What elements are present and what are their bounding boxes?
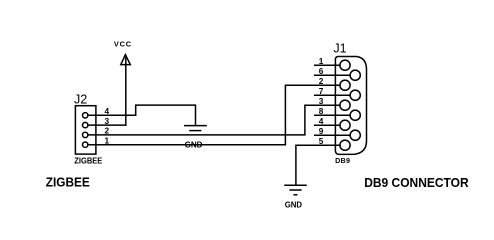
pin number 7 (J1)	[319, 86, 324, 96]
svg-text:2: 2	[319, 76, 324, 86]
label ZIGBEE (symbol value)	[74, 156, 102, 165]
wire stub J1 pin 4	[315, 124, 340, 126]
wire J2 pin 2 to J1 pin 3	[88, 105, 340, 135]
pin circle J1-3	[340, 100, 350, 110]
pin number 1 (J1)	[319, 56, 324, 66]
wire J2 pin 3 to VCC	[88, 124, 126, 126]
pin number 9 (J1)	[319, 126, 324, 136]
power symbol VCC label	[114, 39, 132, 48]
connector J1 DB9 shell	[335, 57, 366, 155]
ground symbol (bottom) bar 3	[294, 194, 297, 196]
pin circle J2-2	[83, 132, 88, 137]
label DB9 (symbol value)	[335, 156, 350, 165]
svg-text:GND: GND	[285, 201, 303, 210]
pin number 1 (J2)	[104, 136, 109, 146]
ground symbol (mid) bar 2	[190, 130, 201, 132]
svg-text:8: 8	[319, 106, 324, 116]
ground symbol (bottom) label GND	[285, 201, 303, 210]
pin number 4 (J1)	[319, 116, 324, 126]
svg-text:3: 3	[319, 96, 324, 106]
svg-text:9: 9	[319, 126, 324, 136]
connector J2 designator	[74, 92, 87, 106]
svg-text:1: 1	[319, 56, 324, 66]
pin circle J1-5	[340, 140, 350, 150]
ground symbol (mid) bar 1	[185, 125, 206, 127]
wire J2 pin 4 to ground	[88, 105, 196, 125]
pin number 3 (J1)	[319, 96, 324, 106]
svg-text:ZIGBEE: ZIGBEE	[74, 156, 102, 165]
pin number 5 (J1)	[319, 136, 324, 146]
wire stub J1 pin 6	[315, 74, 350, 76]
ground symbol (bottom) bar 2	[290, 189, 301, 191]
wire stub J1 pin 7	[315, 94, 350, 96]
svg-text:6: 6	[319, 66, 324, 76]
wire stub J1 pin 2	[315, 84, 336, 86]
wire stub J1 pin 8	[315, 114, 350, 116]
pin circle J2-3	[83, 122, 88, 127]
svg-text:ZIGBEE: ZIGBEE	[46, 174, 90, 189]
svg-text:4: 4	[319, 116, 324, 126]
connector J1 designator	[333, 41, 346, 55]
net label GND on wire	[185, 140, 203, 149]
pin number 4 (J2)	[104, 106, 109, 116]
wire VCC vertical to J2 pin 3	[125, 58, 127, 126]
pin circle J1-1	[340, 60, 350, 70]
connector J2 body	[75, 106, 96, 154]
pin circle J1-9	[350, 130, 360, 140]
svg-text:DB9: DB9	[335, 156, 350, 165]
pin number 2 (J2)	[104, 126, 109, 136]
pin circle J2-4	[83, 113, 88, 118]
pin circle J1-4	[340, 120, 350, 130]
svg-text:5: 5	[319, 136, 324, 146]
pin number 8 (J1)	[319, 106, 324, 116]
svg-text:J2: J2	[74, 92, 87, 106]
pin circle J1-2	[340, 80, 350, 90]
title ZIGBEE	[46, 174, 90, 189]
wire J2 pin 1 to J1 pin 2 (net GND)	[88, 85, 340, 145]
wire stub J1 pin 9	[315, 134, 350, 136]
svg-text:7: 7	[319, 86, 324, 96]
pin circle J2-1	[83, 142, 88, 147]
pin circle J1-6	[350, 70, 360, 80]
wire stub J1 pin 3	[315, 104, 336, 106]
wire stub J1 pin 5	[315, 144, 336, 146]
title DB9 CONNECTOR	[364, 175, 469, 190]
wire stub J1 pin 1	[315, 64, 340, 66]
svg-text:VCC: VCC	[114, 39, 132, 48]
pin number 2 (J1)	[319, 76, 324, 86]
pin circle J1-7	[350, 90, 360, 100]
svg-text:GND: GND	[185, 140, 203, 149]
wire J1 pin 5 to ground	[296, 145, 340, 185]
svg-text:J1: J1	[333, 41, 346, 55]
pin circle J1-8	[350, 110, 360, 120]
svg-text:DB9 CONNECTOR: DB9 CONNECTOR	[364, 175, 469, 190]
power symbol VCC arrow	[121, 55, 131, 65]
pin number 6 (J1)	[319, 66, 324, 76]
ground symbol (bottom) bar 1	[285, 184, 306, 186]
pin number 3 (J2)	[104, 116, 109, 126]
